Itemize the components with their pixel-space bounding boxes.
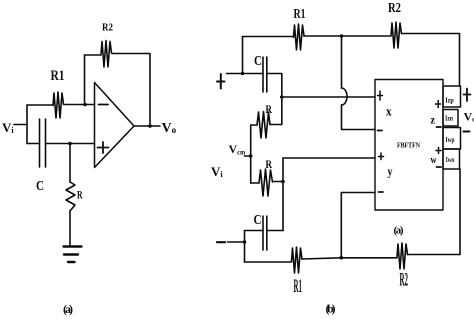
svg-text:FBFTFN: FBFTFN	[397, 141, 420, 150]
resistor R1 bottom	[292, 247, 303, 273]
ground	[64, 245, 82, 247]
wire bottom rail left	[245, 261, 292, 263]
wire feedback vertical left	[84, 55, 86, 105]
wire R upper to Vcm bus	[251, 125, 257, 183]
pin x+	[378, 91, 383, 100]
node B junction dot	[68, 142, 72, 146]
pin w-	[437, 166, 442, 168]
wire C to non-inverting input	[46, 143, 95, 145]
wire R to ground	[69, 211, 71, 246]
caption (a)	[63, 302, 73, 316]
wire x+ node down to R upper	[270, 97, 282, 125]
wire up to top rail	[242, 37, 244, 74]
wire node B down to R	[69, 144, 71, 183]
resistor R2	[85, 41, 151, 127]
wire x- branch vertical with hop	[341, 36, 343, 88]
wire output	[134, 125, 160, 127]
op-amp U1	[95, 83, 135, 168]
resistor R upper	[257, 112, 270, 139]
wire bus to C bottom	[267, 230, 283, 232]
wire y+ input	[283, 157, 375, 159]
pin y-	[379, 191, 384, 193]
svg-text:C: C	[254, 213, 262, 228]
node Vcm junction dot	[249, 154, 253, 158]
svg-text:R1: R1	[294, 276, 303, 297]
node Vo label	[162, 121, 177, 136]
svg-text:Izn: Izn	[445, 114, 454, 123]
pin label y	[388, 164, 393, 179]
terminal - output	[464, 131, 470, 133]
box Izn	[443, 110, 458, 127]
wire top rail mid	[304, 35, 391, 37]
svg-text:(b): (b)	[326, 302, 336, 316]
capacitor C top	[262, 57, 264, 92]
capacitor C	[39, 119, 41, 167]
svg-text:R2: R2	[102, 23, 113, 34]
svg-text:Iwn: Iwn	[446, 155, 455, 164]
node Vi label	[2, 120, 14, 135]
wire x+ input	[282, 96, 375, 98]
caption (b)	[326, 302, 336, 316]
box Iwp	[443, 128, 461, 150]
node X junction dot	[280, 95, 284, 99]
wire x- branch lower	[342, 105, 376, 130]
resistor R2 top	[391, 22, 402, 48]
wire input bus vertical	[26, 105, 28, 144]
pin z+	[436, 101, 441, 108]
wire crossover hop	[342, 88, 348, 105]
svg-text:R: R	[77, 188, 83, 202]
svg-text:y: y	[388, 164, 393, 179]
svg-text:R: R	[266, 102, 273, 116]
wire Vcm bus to R lower	[251, 182, 259, 184]
wire C to x+ node	[267, 74, 282, 98]
pin w+	[436, 148, 441, 154]
resistor R1	[27, 92, 95, 118]
node T3 junction dot	[243, 240, 247, 244]
svg-text:w: w	[431, 154, 437, 166]
pin z-	[437, 126, 442, 128]
box Iwn	[443, 149, 460, 169]
wire capacitor branch	[27, 143, 39, 145]
node T1 junction dot	[241, 72, 245, 76]
block FBFTFN U2	[375, 80, 443, 211]
wire C bottom left	[245, 231, 264, 263]
node T4 junction dot	[340, 256, 344, 260]
svg-text:(a): (a)	[63, 302, 73, 316]
wire Vcm stub	[245, 155, 251, 157]
wire bottom rail mid	[302, 258, 397, 259]
pin y+	[379, 153, 384, 160]
wire y- branch	[341, 193, 375, 258]
svg-text:C: C	[36, 179, 44, 194]
svg-text:(a): (a)	[394, 225, 404, 237]
terminal - input	[217, 241, 225, 243]
svg-text:R1: R1	[294, 7, 306, 22]
svg-text:C: C	[254, 54, 262, 69]
resistor R1 top	[294, 24, 305, 50]
svg-text:R2: R2	[388, 1, 401, 16]
svg-text:R2: R2	[400, 270, 409, 291]
svg-text:x: x	[386, 104, 392, 119]
wire bottom rail right	[408, 169, 461, 255]
wire y+ bus vertical	[282, 158, 284, 231]
terminal + input	[217, 74, 225, 89]
node Vi label	[211, 164, 223, 179]
resistor R lower	[259, 169, 273, 196]
svg-text:R1: R1	[51, 68, 65, 84]
resistor R2 bottom	[397, 243, 408, 269]
terminal + output	[464, 89, 471, 102]
node A junction dot	[83, 103, 87, 107]
wire Vi lead	[14, 124, 27, 126]
node Vo label	[464, 110, 474, 124]
box Izp	[443, 86, 461, 107]
svg-text:z: z	[431, 113, 436, 127]
node Vcm label	[229, 142, 246, 157]
wire - terminal lead	[228, 241, 245, 243]
pin label z	[431, 113, 436, 127]
pin label x	[386, 104, 392, 119]
svg-text:Izp: Izp	[445, 96, 454, 105]
capacitor C bottom	[262, 216, 264, 250]
node Vo junction dot	[148, 124, 152, 128]
svg-text:Iwp: Iwp	[446, 135, 455, 144]
node Y junction dot	[281, 180, 285, 184]
label (a) inner	[394, 225, 404, 237]
wire + to C	[227, 73, 264, 75]
svg-text:R: R	[266, 157, 273, 171]
wire R lower to bus	[273, 181, 284, 183]
pin label w	[431, 154, 437, 166]
wire top rail right to z+	[402, 34, 460, 87]
resistor R	[66, 182, 75, 211]
node T2 junction dot	[340, 34, 344, 38]
pin x-	[378, 130, 383, 132]
wire top rail left	[243, 36, 294, 38]
